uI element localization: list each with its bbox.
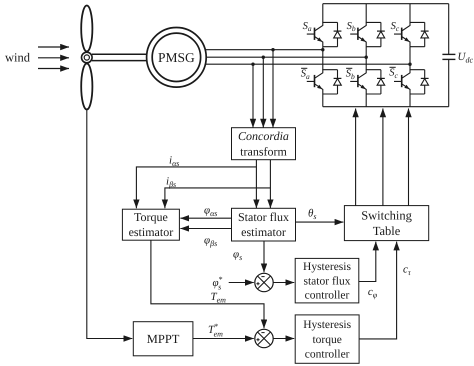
- svg-text:transform: transform: [240, 144, 287, 158]
- svg-text:estimator: estimator: [129, 225, 174, 239]
- svg-text:Hysteresis: Hysteresis: [303, 261, 351, 273]
- svg-text:Concordia: Concordia: [238, 129, 289, 143]
- svg-text:torque: torque: [312, 334, 341, 346]
- svg-text:wind: wind: [5, 51, 31, 65]
- svg-text:controller: controller: [305, 290, 350, 302]
- svg-text:PMSG: PMSG: [158, 50, 195, 65]
- svg-text:Hysteresis: Hysteresis: [303, 319, 351, 331]
- svg-text:estimator: estimator: [241, 225, 286, 239]
- svg-text:Table: Table: [373, 224, 401, 238]
- svg-text:controller: controller: [305, 349, 350, 361]
- svg-text:Stator flux: Stator flux: [238, 210, 289, 224]
- svg-text:Switching: Switching: [361, 208, 412, 222]
- svg-text:stator flux: stator flux: [304, 275, 351, 287]
- svg-text:Torque: Torque: [134, 210, 168, 224]
- svg-text:MPPT: MPPT: [147, 332, 180, 346]
